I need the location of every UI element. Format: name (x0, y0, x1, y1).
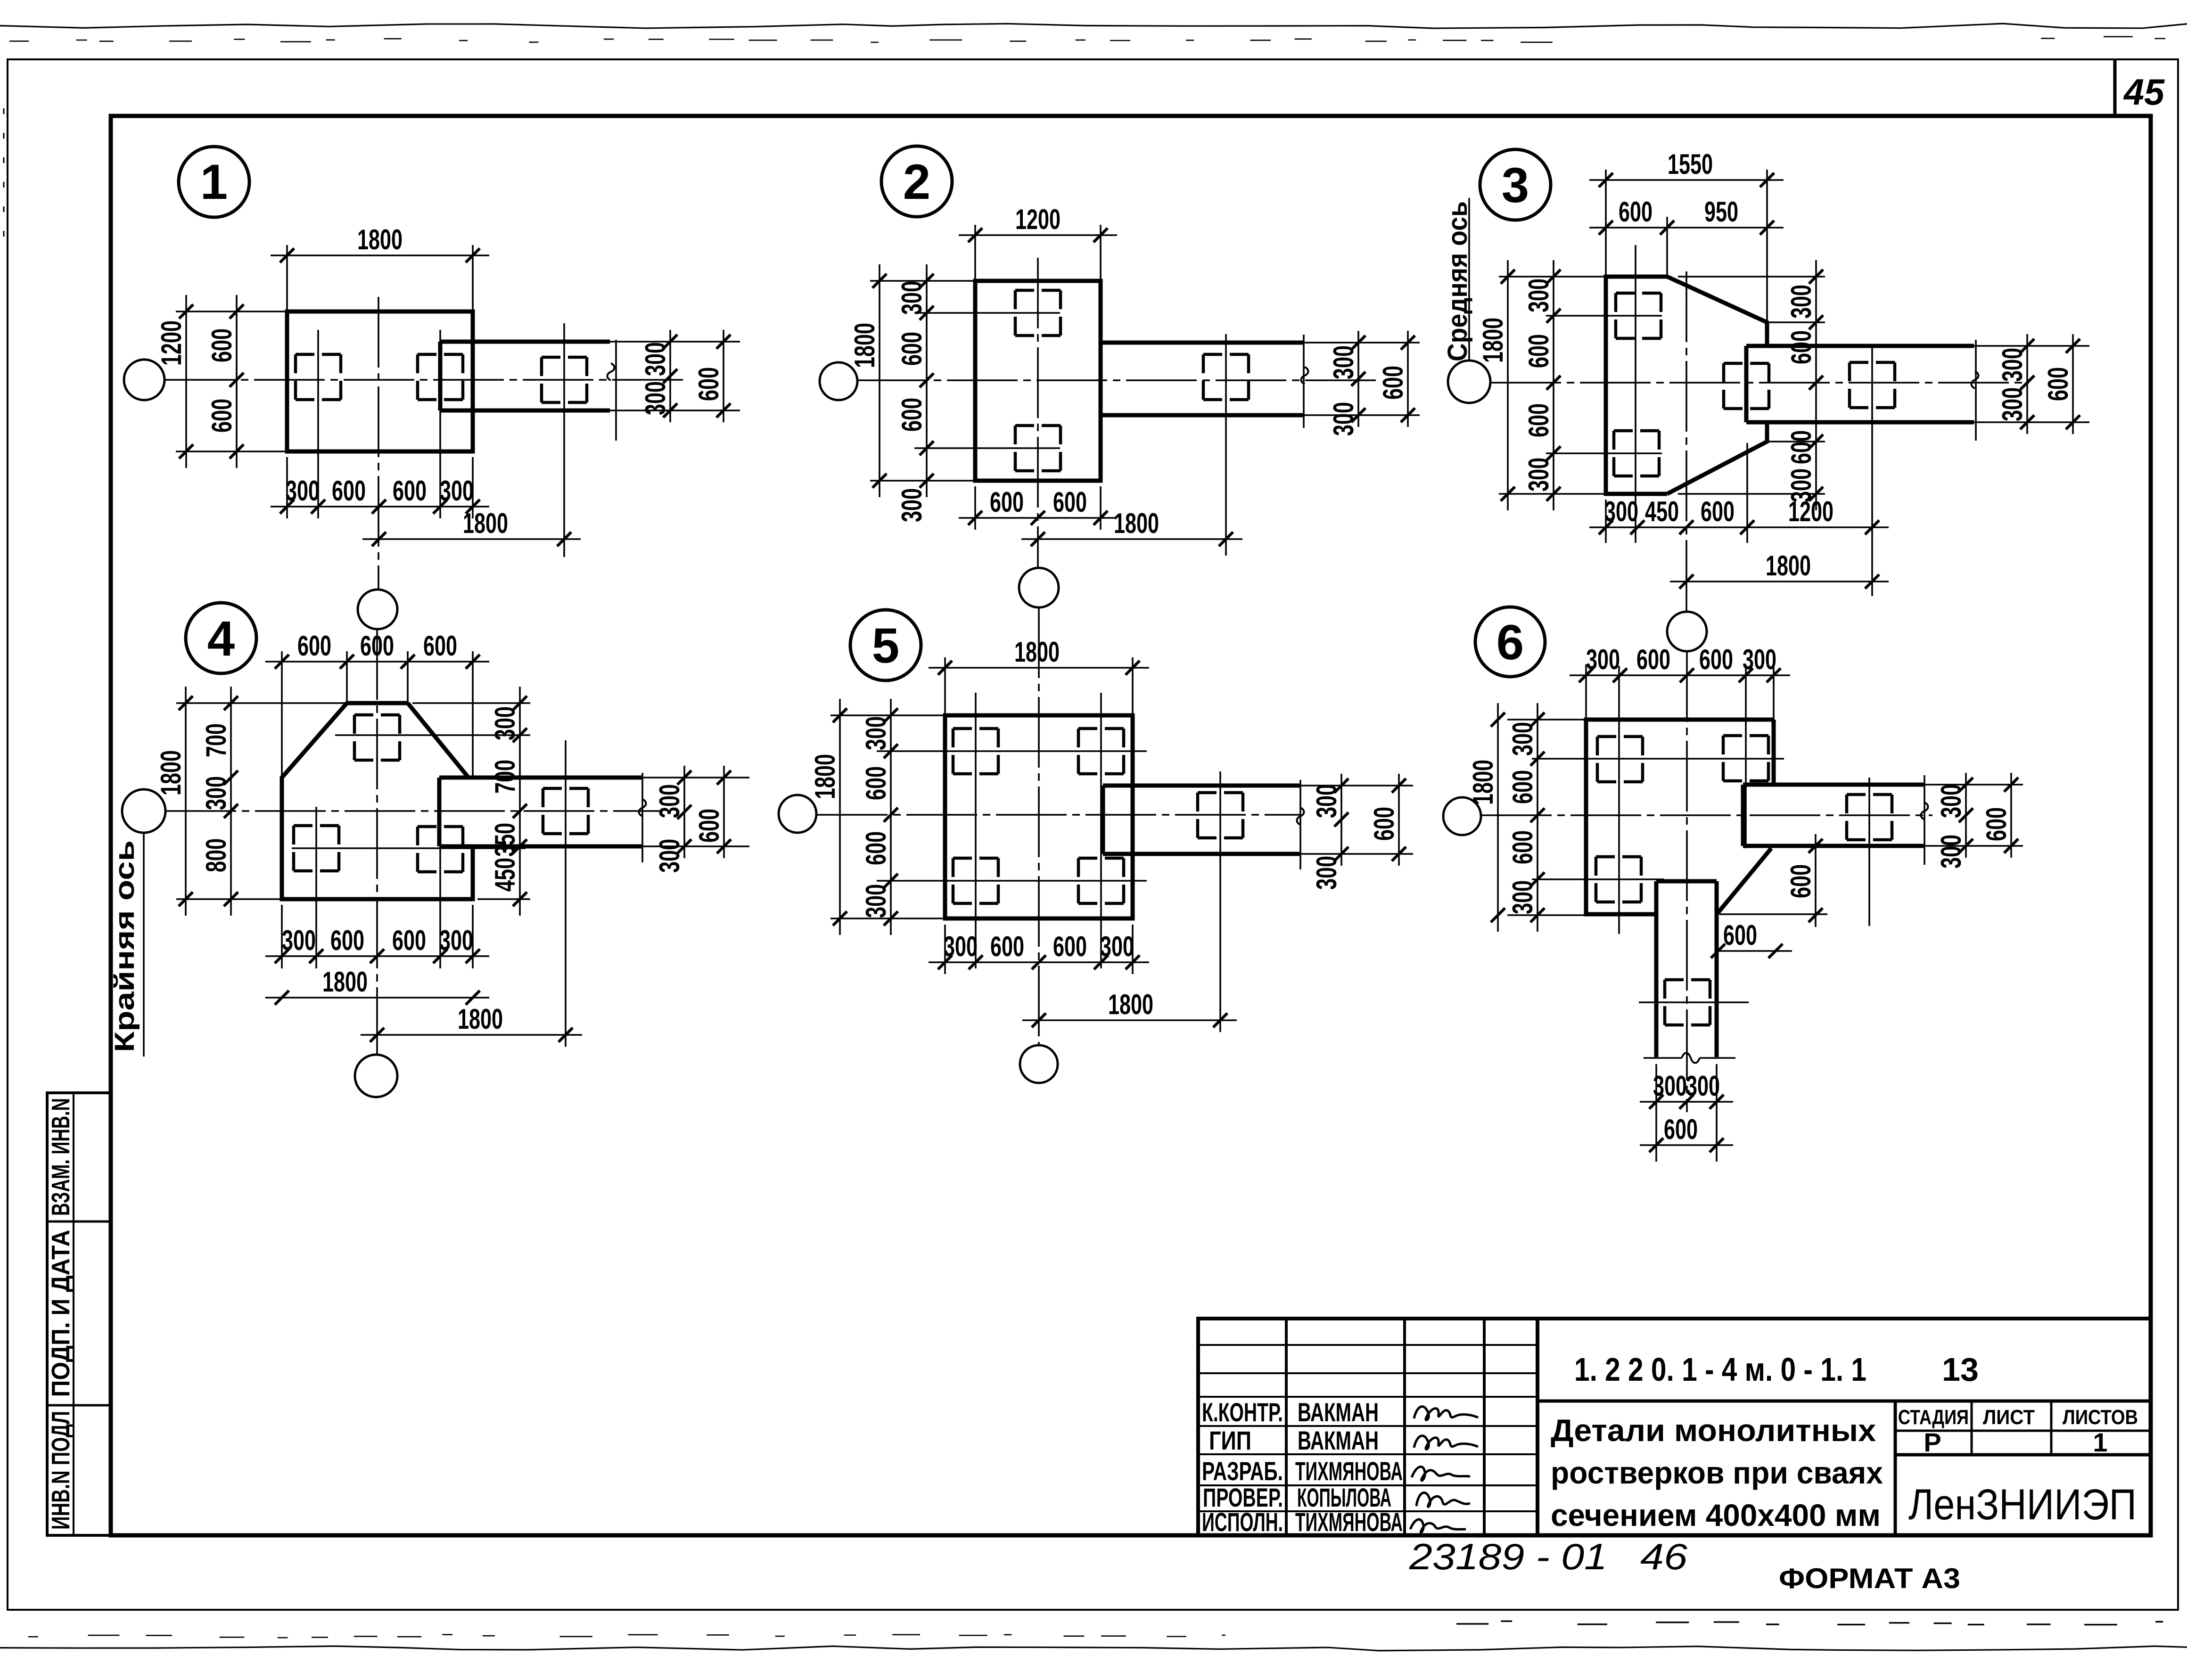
detail 4 beam extension lines (641, 777, 749, 779)
title block row line 5 (1198, 1453, 1537, 1455)
svg-text:ЛенЗНИИЭП: ЛенЗНИИЭП (1908, 1481, 2137, 1529)
detail 5 number circle (850, 610, 921, 680)
svg-text:46: 46 (1640, 1536, 1688, 1577)
svg-text:ФОРМАТ А3: ФОРМАТ А3 (1779, 1563, 1960, 1594)
detail 6 stem dimension 600 (1640, 1144, 1733, 1146)
svg-text:300: 300 (1328, 345, 1359, 379)
inner drawing frame (111, 116, 2151, 1535)
detail 1 number circle (179, 147, 249, 217)
detail 3 right dimension 300 300 (2026, 334, 2028, 434)
svg-text:600: 600 (896, 398, 928, 432)
title block vertical divider big area (1536, 1319, 1539, 1535)
detail 4 right dimension 300 300 (683, 766, 685, 858)
detail 3 left dimensions 300 600 600 300 (1553, 260, 1554, 510)
svg-text:1800: 1800 (1108, 989, 1153, 1020)
detail 6 right dimension 300 300 (1965, 773, 1967, 858)
detail 4 pile cap outline (282, 703, 473, 899)
svg-text:Средняя ось: Средняя ось (1442, 201, 1473, 361)
detail 2 beam extension lines (1304, 342, 1420, 344)
detail 4 right inner dimensions 300 700 350 450 (412, 702, 530, 704)
title block signature row5 (1410, 1519, 1466, 1532)
detail 3 pile P1 horizontal witness (1546, 315, 1662, 317)
svg-text:300: 300 (200, 776, 232, 810)
svg-text:350: 350 (489, 823, 521, 857)
detail 5 beam extension lines (1299, 785, 1413, 787)
detail 6 pile P4 (dashed) (1847, 793, 1892, 796)
detail 4 pile P2/P3 horizontal witness (292, 847, 526, 849)
title block signature row4 (1416, 1492, 1470, 1507)
detail 1 beam end witness line (615, 340, 617, 441)
detail 2 left axis circle (820, 362, 857, 400)
svg-text:600: 600 (1368, 807, 1400, 841)
detail 4 pile P1 (dashed) (354, 713, 400, 717)
svg-text:1800: 1800 (1014, 636, 1060, 668)
detail 1 beam outline (440, 340, 610, 344)
detail 6 pile cap outline (1586, 720, 1774, 914)
detail 6 top dimensions 300 600 600 300 (1585, 664, 1587, 720)
detail 3 left piles axis line (1635, 245, 1636, 543)
detail 4 top dimensions 600 600 600 (281, 651, 283, 778)
svg-text:600: 600 (1377, 366, 1409, 400)
detail 2 beam outline (1101, 341, 1304, 345)
svg-text:4: 4 (207, 611, 235, 666)
svg-text:300: 300 (1997, 387, 2028, 421)
svg-text:ЛИСТОВ: ЛИСТОВ (2063, 1406, 2138, 1429)
svg-text:950: 950 (1704, 196, 1738, 228)
stage grid divider ЛИСТ/ЛИСТОВ (2050, 1401, 2053, 1455)
detail 5 horizontal centerline (817, 814, 1301, 816)
detail 3 beam break mark (1972, 371, 1979, 388)
detail 3 pile cap outline (1606, 277, 1667, 494)
svg-text:600: 600 (297, 630, 331, 662)
detail 2 top dimension 1200 (974, 225, 976, 281)
svg-text:Р: Р (1924, 1427, 1941, 1457)
title block vertical divider role column (1285, 1319, 1288, 1535)
svg-text:600: 600 (1699, 644, 1733, 675)
svg-text:300: 300 (654, 784, 685, 818)
detail 2 pile P1 axis line (914, 312, 1060, 314)
svg-text:800: 800 (200, 838, 232, 872)
detail 6 horizontal centerline (1481, 814, 1932, 816)
detail 5 pile cap outline (945, 715, 1133, 918)
detail 4 pile P1 horizontal witness (335, 734, 530, 736)
detail 2 lower dimension 1800 (1021, 538, 1242, 540)
detail 1 top dimension 1800 (286, 245, 288, 315)
svg-text:РАЗРАБ.: РАЗРАБ. (1202, 1456, 1283, 1486)
svg-text:600: 600 (896, 332, 928, 366)
detail 4 pile P4 (dashed) (543, 787, 588, 790)
title block vertical divider signature column (1483, 1319, 1486, 1535)
title block signature row1 (1414, 1407, 1478, 1420)
detail 1 pile cap outline (287, 311, 473, 451)
stage grid divider СТАДИЯ/ЛИСТ (1971, 1401, 1973, 1455)
title block outline (1198, 1319, 2151, 1535)
detail 6 right dimension 600 (2010, 773, 2012, 858)
title block row line 4 (1198, 1425, 1537, 1427)
svg-text:ВАКМАН: ВАКМАН (1298, 1397, 1379, 1427)
svg-text:700: 700 (489, 760, 521, 794)
detail 4 beam break mark (639, 799, 646, 816)
detail 6 left piles axis line (1618, 666, 1620, 934)
detail 2 right dimension 600 (1407, 331, 1409, 427)
svg-text:1800: 1800 (1114, 508, 1159, 539)
svg-text:600: 600 (1507, 770, 1538, 804)
svg-text:600: 600 (1785, 430, 1817, 464)
detail 1 pile P2 axis line (439, 330, 441, 518)
svg-text:300: 300 (439, 925, 473, 956)
detail 5 beam pile axis line (1219, 771, 1221, 1032)
detail 6 beam break mark (1921, 803, 1928, 820)
detail 2 pile P3 (dashed) (1203, 353, 1249, 356)
scan artifact: top dashed trace (9, 41, 29, 42)
detail 6 stem outline (1656, 879, 1717, 884)
detail 4 bottom dimensions 300 600 600 300 (281, 905, 283, 968)
svg-text:300: 300 (1686, 1070, 1720, 1102)
detail 1 left dimension 600 600 (236, 295, 238, 468)
svg-text:ГИП: ГИП (1209, 1426, 1251, 1455)
detail 1 horizontal centerline (164, 379, 688, 381)
detail 2 pile P1 (dashed) (1015, 289, 1061, 292)
detail 1 beam break mark (608, 363, 615, 380)
svg-text:600: 600 (1664, 1114, 1698, 1145)
detail 2 right dimension 300 300 (1357, 331, 1359, 427)
svg-text:1800: 1800 (458, 1003, 503, 1035)
scan artifact: bottom dashed trace (28, 1636, 38, 1638)
detail 1 pile P1 axis line (317, 330, 319, 518)
detail 4 left axis circle (122, 789, 165, 833)
detail 1 lower dimension 1800 (362, 538, 581, 540)
detail 2 number circle (881, 146, 952, 217)
detail 5 pile P2 (dashed) (1078, 727, 1124, 730)
left stamp column box (47, 1093, 111, 1535)
detail 5 pile P4 (dashed) (1078, 857, 1124, 860)
left stamp cell divider 2 (47, 1404, 111, 1407)
detail 6 number circle (1475, 607, 1545, 677)
detail 6 stem dimensions 300 300 (1655, 1064, 1657, 1162)
svg-text:600: 600 (990, 486, 1024, 518)
detail 3 bottom dimensions 300 450 600 1200 (1605, 500, 1607, 543)
detail 6 vertical centerline (1686, 651, 1688, 1112)
svg-text:300: 300 (1328, 402, 1359, 436)
detail 6 beam outline (1743, 783, 1924, 787)
left stamp column inner divider (73, 1093, 74, 1535)
detail 2 pile P2 axis line (914, 447, 1060, 449)
detail 4 left dimension 1800 (176, 702, 347, 704)
svg-text:600: 600 (1785, 330, 1817, 364)
svg-text:ВАКМАН: ВАКМАН (1298, 1426, 1379, 1455)
detail 6 diagonal area dimension 600 (1716, 950, 1792, 952)
title block row line 6 (1198, 1484, 1537, 1486)
detail 5 right dimension 300 300 (1340, 774, 1342, 866)
stage grid header bottom line (1895, 1430, 2151, 1432)
stage grid row bottom line (1895, 1453, 2151, 1457)
svg-text:450: 450 (1645, 496, 1679, 527)
svg-text:300: 300 (944, 931, 978, 962)
svg-text:ЛИСТ: ЛИСТ (1983, 1406, 2035, 1429)
detail 2 bottom dimension 600 600 (974, 486, 976, 530)
detail 4 pile P3 (dashed) (418, 825, 463, 828)
svg-text:6: 6 (1496, 615, 1524, 670)
svg-text:600: 600 (206, 328, 238, 362)
svg-text:600: 600 (1636, 644, 1670, 675)
detail 1 pile P1 (dashed) (296, 353, 341, 356)
detail 3 pile P2 horizontal witness (1546, 452, 1662, 454)
svg-text:300: 300 (896, 281, 928, 315)
svg-text:Крайняя ось: Крайняя ось (109, 840, 140, 1052)
detail 5 vertical centerline (1038, 607, 1040, 1045)
svg-text:600: 600 (332, 475, 366, 507)
detail 4 beam outline (439, 776, 641, 780)
detail 2 beam break mark (1301, 367, 1308, 384)
title block row line 3 (1198, 1396, 1537, 1398)
svg-text:300: 300 (440, 475, 474, 507)
svg-text:300: 300 (1935, 835, 1967, 869)
svg-text:600: 600 (1053, 486, 1087, 518)
detail 4 vertical centerline (376, 629, 378, 1055)
detail 2 / 5 shared axis circle (1019, 568, 1059, 607)
detail 5 pile P5 (dashed) (1198, 791, 1243, 795)
svg-text:600: 600 (423, 630, 457, 662)
detail 6 pile P3 (dashed) (1596, 855, 1641, 859)
detail 5 right dimension 600 (1398, 774, 1400, 866)
svg-text:300: 300 (860, 716, 892, 750)
detail 5 pile P1 (dashed) (953, 727, 998, 730)
title block vertical divider name column (1403, 1319, 1406, 1535)
svg-text:600: 600 (1701, 496, 1735, 527)
svg-text:ростверков при сваях: ростверков при сваях (1551, 1455, 1883, 1490)
title block signature row3 (1412, 1467, 1470, 1480)
detail 4 right dimension 600 (723, 766, 725, 858)
left stamp cell divider 1 (47, 1221, 111, 1223)
svg-text:1800: 1800 (1477, 318, 1509, 363)
detail 3 left dimension 1800 (1499, 276, 1606, 278)
detail 2 beam end witness line (1303, 335, 1305, 428)
svg-text:ИНВ.N ПОДЛ: ИНВ.N ПОДЛ (47, 1411, 75, 1530)
scan artifact: bottom paper edge wavy line (0, 1646, 2187, 1651)
svg-text:1800: 1800 (322, 966, 368, 998)
svg-text:300: 300 (1507, 722, 1538, 756)
detail 3 junction pile axis line (1746, 443, 1748, 543)
detail 2 pile P2 (dashed) (1015, 424, 1061, 427)
detail 3 beam pile axis line (1871, 346, 1873, 596)
detail 1 vertical centerline (378, 297, 379, 590)
detail 5 beam outline (1103, 784, 1299, 788)
detail 4 lower dimension 1800 (361, 1034, 582, 1036)
detail 2 horizontal centerline (857, 379, 1381, 381)
title block signature row2 (1414, 1436, 1478, 1450)
svg-text:300: 300 (654, 839, 685, 873)
svg-text:600: 600 (1785, 864, 1817, 898)
svg-text:1800: 1800 (1467, 760, 1499, 805)
svg-text:600: 600 (360, 630, 394, 662)
detail 1 right dimension 600 (723, 330, 724, 422)
detail 2 left dimensions 300 600 600 300 (926, 264, 928, 497)
svg-text:300: 300 (1997, 348, 2028, 382)
svg-text:ТИХМЯНОВА: ТИХМЯНОВА (1295, 1507, 1403, 1537)
svg-text:1800: 1800 (155, 750, 187, 795)
svg-text:300: 300 (1586, 644, 1620, 675)
detail 5 bottom dimensions 300 600 600 300 (944, 925, 946, 974)
svg-text:1800: 1800 (463, 508, 508, 539)
detail 3 beam extension lines (1974, 345, 2089, 347)
detail 4 axis label line (143, 833, 145, 1057)
detail 1 beam extension lines (610, 341, 740, 343)
svg-text:Детали монолитных: Детали монолитных (1551, 1413, 1876, 1448)
detail 6 pile P5 (dashed) (1665, 978, 1710, 982)
svg-text:600: 600 (393, 475, 427, 507)
svg-text:1800: 1800 (849, 323, 880, 368)
svg-text:ВЗАМ. ИНВ.N: ВЗАМ. ИНВ.N (47, 1098, 75, 1216)
detail 2 pile cap outline (975, 281, 1101, 481)
svg-text:600: 600 (693, 809, 725, 843)
svg-text:СТАДИЯ: СТАДИЯ (1898, 1406, 1969, 1429)
detail 6 top pile row witness (1532, 758, 1784, 760)
svg-text:600: 600 (860, 831, 892, 865)
svg-text:300: 300 (640, 381, 671, 415)
detail 4 pile P3 axis line (439, 807, 441, 968)
detail 1 bottom dimensions 300 600 600 300 (286, 457, 288, 518)
detail 3 axis label line (1468, 198, 1470, 361)
svg-text:2: 2 (903, 155, 930, 210)
svg-text:300: 300 (1785, 285, 1817, 319)
detail 4 horizontal centerline (165, 810, 660, 812)
detail 3 bottom dimension 1800 (1670, 581, 1889, 582)
detail 6 left dimension 1800 (1507, 719, 1586, 721)
svg-text:5: 5 (872, 618, 899, 673)
detail 6 pile P2 (dashed) (1723, 734, 1768, 738)
detail 6 beam pile axis line (1868, 778, 1870, 926)
svg-text:600: 600 (2042, 367, 2074, 401)
svg-text:300: 300 (1311, 784, 1342, 818)
detail 3 beam end witness line (1975, 340, 1977, 441)
svg-text:300: 300 (1604, 496, 1638, 527)
svg-text:1550: 1550 (1668, 148, 1713, 180)
scan artifact: left edge dashes (3, 108, 5, 245)
detail 6 below-beam dimension 600 (1719, 913, 1827, 915)
svg-text:сечением 400х400 мм: сечением 400х400 мм (1551, 1498, 1881, 1532)
detail 3 left axis circle (1448, 361, 1490, 403)
svg-text:13: 13 (1942, 1351, 1979, 1388)
detail 3 right inner dimensions 300 600 600 300 (1678, 276, 1825, 278)
detail 5 beam end witness line (1299, 780, 1301, 869)
detail 5 bottom axis circle (1020, 1045, 1058, 1083)
detail 3 beam outline (1746, 344, 1974, 348)
detail 3 vertical centerline (1685, 271, 1687, 612)
detail 4 bottom axis circle (355, 1055, 397, 1097)
detail 6 bottom-left pile witness (1532, 878, 1664, 880)
detail 4 beam end witness line (641, 773, 643, 862)
sheet number box divider (2113, 59, 2117, 116)
detail 4 pile P2 (dashed) (294, 824, 339, 828)
svg-text:600: 600 (1523, 334, 1554, 368)
svg-text:300: 300 (1311, 856, 1342, 890)
svg-text:1. 2 2 0. 1 - 4 м. 0 - 1. 1: 1. 2 2 0. 1 - 4 м. 0 - 1. 1 (1574, 1351, 1866, 1388)
svg-text:1: 1 (2093, 1427, 2107, 1457)
svg-text:600: 600 (392, 925, 426, 956)
svg-text:300: 300 (489, 706, 521, 740)
detail 2 vertical centerline (1037, 258, 1039, 568)
svg-text:3: 3 (1502, 158, 1529, 213)
detail 3 top dimension 1550 (1605, 170, 1607, 277)
svg-text:300: 300 (1507, 880, 1538, 914)
detail 1 left axis circle (124, 360, 164, 400)
svg-text:45: 45 (2123, 71, 2165, 113)
svg-text:ИСПОЛН.: ИСПОЛН. (1202, 1507, 1283, 1537)
svg-text:300: 300 (1100, 931, 1134, 962)
svg-text:600: 600 (1723, 919, 1757, 951)
detail 5 top pile row witness (877, 750, 1147, 752)
svg-text:300: 300 (1653, 1070, 1687, 1102)
detail 5 left piles axis line (975, 693, 977, 968)
detail 6 right pile axis line (1745, 666, 1747, 848)
svg-text:600: 600 (1507, 830, 1538, 864)
svg-text:600: 600 (860, 766, 892, 800)
svg-text:600: 600 (1981, 807, 2012, 841)
svg-text:1800: 1800 (1766, 550, 1811, 582)
svg-text:300: 300 (1743, 644, 1776, 675)
title block row line 7 (1198, 1510, 1537, 1512)
svg-text:600: 600 (206, 399, 238, 433)
svg-text:600: 600 (330, 925, 364, 956)
detail 4 pile P2 axis line (315, 807, 317, 968)
svg-text:1800: 1800 (809, 754, 841, 799)
detail 5 top dimension 1800 (944, 657, 946, 715)
svg-text:300: 300 (282, 925, 316, 956)
svg-text:ТИХМЯНОВА: ТИХМЯНОВА (1295, 1456, 1403, 1486)
svg-text:600: 600 (693, 367, 724, 401)
detail 5 lower dimension 1800 (1022, 1019, 1237, 1021)
detail 6 stem pile witness (1639, 1001, 1749, 1003)
title block row line 1 (1198, 1344, 1537, 1346)
detail 3 pile P4 (dashed) (1850, 361, 1895, 364)
detail 3 / 6 shared axis circle (1667, 612, 1707, 651)
detail 2 pile P3 axis line (1225, 334, 1227, 556)
svg-text:300: 300 (1523, 458, 1554, 492)
detail 6 beam end witness line (1924, 775, 1925, 865)
svg-text:1: 1 (200, 155, 228, 210)
detail 3 right dimension 600 (2072, 334, 2074, 434)
detail 1 pile P3 axis line (563, 323, 565, 557)
svg-text:600: 600 (1523, 403, 1554, 437)
svg-text:600: 600 (1619, 196, 1653, 228)
detail 1 pile P3 (dashed) (542, 356, 587, 359)
svg-text:1200: 1200 (1788, 496, 1833, 527)
detail 3 horizontal centerline (1490, 382, 2029, 384)
svg-text:300: 300 (1523, 279, 1554, 312)
detail 1 pile P2 (dashed) (418, 353, 463, 356)
detail 5 right piles axis line (1100, 693, 1102, 968)
svg-text:1200: 1200 (156, 320, 187, 366)
detail 5 bottom pile row witness (877, 880, 1147, 882)
detail 1 left dimension 1200 (176, 311, 287, 312)
title block row line 2 (1198, 1372, 1537, 1374)
detail 4 number circle (186, 603, 256, 673)
svg-text:450: 450 (489, 858, 521, 892)
detail 1 right dimension 300 300 (669, 330, 671, 422)
detail 3 pile P1 (dashed) (1616, 292, 1661, 295)
svg-text:1800: 1800 (357, 224, 403, 255)
detail 6 stem break mark (1682, 1053, 1700, 1063)
svg-text:23189 - 01: 23189 - 01 (1409, 1536, 1607, 1577)
detail 5 pile P3 (dashed) (953, 857, 998, 860)
title block divider under document number (1537, 1400, 2151, 1403)
detail 6 beam extension lines (1924, 784, 2023, 786)
detail 3 pile P2 (dashed) (1614, 429, 1659, 433)
detail 6 pile P1 (dashed) (1597, 735, 1643, 738)
detail 4 left dimensions 700 300 800 (230, 687, 232, 916)
svg-text:300: 300 (1935, 784, 1967, 818)
svg-text:300: 300 (640, 342, 671, 376)
